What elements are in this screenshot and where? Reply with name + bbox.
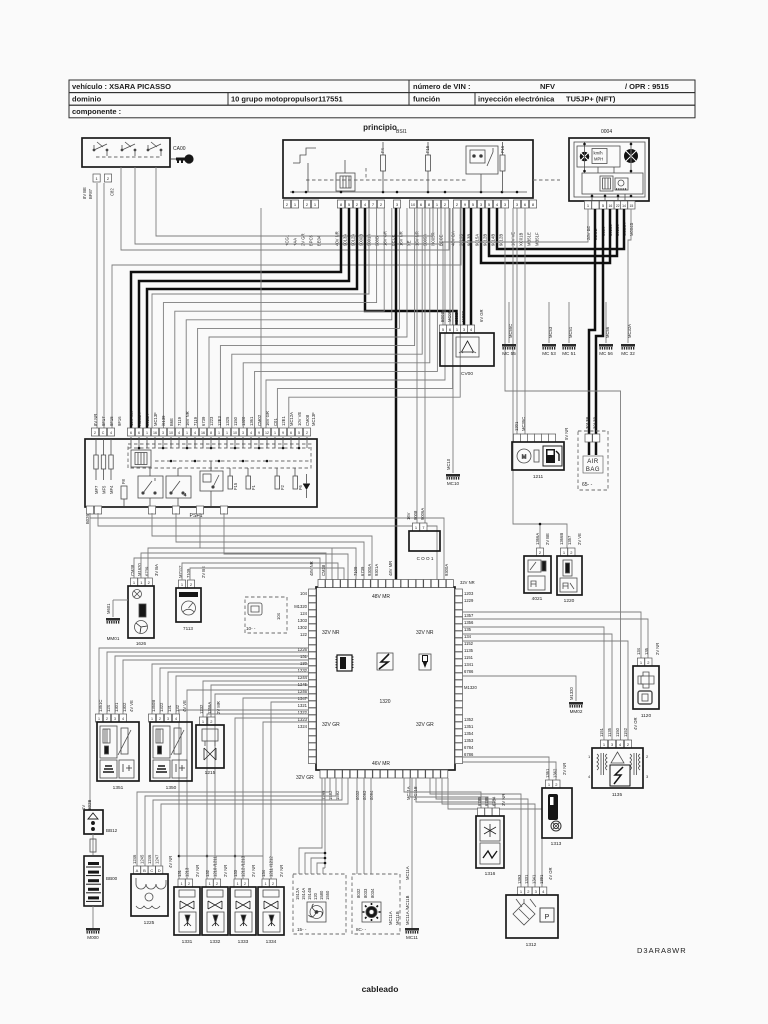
svg-text:1225: 1225	[144, 920, 155, 926]
svg-text:1151: 1151	[599, 727, 604, 737]
svg-text:NFV: NFV	[540, 82, 555, 91]
BSI1 junction dots	[292, 191, 295, 194]
wire ECU to 1626 b	[141, 553, 326, 580]
svg-text:5: 5	[298, 431, 300, 435]
BSI1 connector pin row	[283, 200, 536, 208]
fuse F15	[426, 155, 431, 171]
svg-text:4: 4	[175, 717, 177, 721]
1334 pin labels	[261, 856, 284, 877]
airbag pin labels	[585, 417, 598, 429]
svg-text:MC56: MC56	[605, 326, 610, 338]
svg-text:MC 51: MC 51	[562, 351, 576, 356]
instrument cluster 0004	[569, 138, 649, 201]
BSI1 internal switch box	[466, 146, 498, 174]
wire ECU to coil 1135 a	[462, 627, 604, 740]
ground MC11	[405, 928, 419, 940]
wire PSF1 to ECU 48V b	[98, 513, 437, 580]
1120 pin labels	[636, 643, 660, 655]
wire BSI to C001 pin2	[424, 208, 426, 523]
svg-text:CM38: CM38	[321, 564, 326, 576]
svg-text:3: 3	[167, 717, 169, 721]
header table	[69, 80, 695, 118]
wire ECU to 1225 d	[161, 778, 348, 866]
coolant temp sensor 1220	[557, 556, 582, 595]
1225 pin labels	[132, 854, 173, 868]
wire ECU to 1313 b	[462, 762, 556, 780]
svg-text:3: 3	[114, 717, 116, 721]
svg-text:1580: 1580	[319, 890, 324, 900]
wire cascade BSI to PSF1	[175, 208, 384, 428]
svg-text:8V NR: 8V NR	[93, 414, 98, 426]
svg-text:F15: F15	[233, 482, 238, 490]
svg-text:1514B: 1514B	[307, 888, 312, 900]
svg-text:MPH: MPH	[594, 157, 603, 162]
wire ECU to 1215 b	[211, 685, 308, 717]
wire ECU common injector a	[179, 710, 308, 879]
svg-text:1: 1	[226, 431, 228, 435]
wire ECU to 1316 b	[410, 778, 488, 808]
wire ECU to lambda 1120 a	[462, 612, 641, 658]
PSF1 relay 1	[138, 476, 163, 498]
svg-text:B: B	[143, 868, 146, 873]
1211 motor symbol	[517, 449, 531, 463]
wire MC00 thick to CV00	[470, 208, 473, 325]
0004 inner connector IC	[600, 176, 613, 191]
switch contact in CA00	[147, 142, 162, 156]
svg-text:1211 /1212: 1211 /1212	[269, 856, 274, 877]
AC compressor icon	[362, 902, 381, 922]
svg-text:48V NR: 48V NR	[309, 561, 314, 576]
1626 pin labels	[130, 563, 159, 576]
ECU injector icon	[419, 654, 431, 670]
relay 1215 pins	[199, 717, 215, 725]
svg-text:1312: 1312	[526, 942, 537, 948]
svg-text:XC03A: XC03A	[137, 413, 142, 426]
svg-text:9: 9	[282, 431, 284, 435]
wire PSF1 to ECU e	[200, 513, 356, 580]
svg-text:1151: 1151	[464, 655, 474, 660]
svg-text:1: 1	[151, 717, 153, 721]
svg-text:1351: 1351	[464, 724, 474, 729]
svg-text:32V GR: 32V GR	[322, 722, 340, 728]
PSF1 internal connector	[131, 450, 151, 467]
svg-text:4: 4	[250, 431, 252, 435]
svg-text:32V NR: 32V NR	[322, 630, 340, 636]
svg-text:32V NR: 32V NR	[460, 580, 475, 585]
svg-text:número de VIN :: número de VIN :	[413, 82, 471, 91]
svg-text:16: 16	[609, 204, 613, 208]
svg-text:6784: 6784	[464, 745, 474, 750]
svg-text:MC 53: MC 53	[542, 351, 556, 356]
svg-text:10V NR: 10V NR	[129, 411, 134, 426]
svg-text:C01: C01	[273, 418, 278, 426]
svg-text:D3ARA8WR: D3ARA8WR	[637, 946, 687, 955]
AC box labels	[356, 888, 375, 898]
wire C82 pin2 down to PSF1	[103, 183, 105, 428]
svg-text:BF87: BF87	[88, 188, 93, 199]
blower unit 1626 pins	[130, 578, 152, 586]
svg-text:8V BE: 8V BE	[82, 187, 87, 199]
svg-text:6V GR: 6V GR	[479, 309, 484, 322]
svg-text:1351: 1351	[113, 785, 124, 791]
wire BSI to ground MC10	[452, 208, 454, 473]
svg-text:F2: F2	[280, 484, 285, 490]
wire ECU to 1351 b	[107, 652, 308, 714]
svg-text:1: 1	[209, 882, 211, 886]
svg-text:7113: 7113	[183, 626, 193, 631]
svg-text:vehículo : XSARA PICASSO: vehículo : XSARA PICASSO	[72, 82, 171, 91]
svg-text:8: 8	[210, 431, 212, 435]
svg-text:132: 132	[205, 869, 210, 877]
svg-text:1320: 1320	[241, 416, 246, 426]
svg-text:1: 1	[181, 882, 183, 886]
svg-text:función: función	[413, 95, 440, 104]
svg-text:1514A: 1514A	[301, 888, 306, 900]
svg-text:12E1: 12E1	[281, 416, 286, 426]
ECU right pin labels	[464, 591, 477, 757]
svg-text:XC01B: XC01B	[519, 233, 524, 246]
PSF1 fuse F8	[121, 486, 127, 499]
ground MC10	[446, 474, 460, 486]
svg-text:3: 3	[162, 431, 164, 435]
svg-text:1361: 1361	[249, 416, 254, 426]
svg-text:1321: 1321	[298, 703, 308, 708]
PSF1 relay 2	[166, 476, 191, 498]
svg-text:6784: 6784	[492, 796, 497, 806]
svg-text:2V NR: 2V NR	[251, 865, 256, 877]
svg-text:BB00: BB00	[106, 876, 118, 881]
wire 9012A thick BSI to PSF1	[139, 208, 349, 428]
1331 pin labels	[177, 865, 200, 877]
svg-text:1391: 1391	[539, 874, 544, 884]
wire ECU to 1215 a	[203, 681, 308, 717]
svg-text:2: 2	[94, 431, 96, 435]
svg-text:3: 3	[242, 431, 244, 435]
svg-text:2V NR: 2V NR	[195, 865, 200, 877]
wire ECU to 1316 c	[416, 778, 495, 808]
airbag control unit dashed box	[578, 431, 608, 490]
svg-text:32V GR: 32V GR	[416, 722, 434, 728]
wire ECU to 1350 a	[152, 664, 308, 714]
PSF1 bottom pin row	[86, 506, 227, 514]
svg-text:1393: 1393	[517, 874, 522, 884]
svg-text:4: 4	[588, 774, 591, 779]
svg-text:1220: 1220	[564, 598, 575, 604]
svg-text:F15: F15	[425, 145, 430, 153]
svg-text:CM02: CM02	[257, 414, 262, 426]
svg-text:1352: 1352	[464, 717, 474, 722]
svg-text:9005: 9005	[454, 312, 459, 322]
svg-text:130: 130	[300, 661, 308, 666]
wire fan unit b	[305, 853, 325, 874]
svg-text:12E3: 12E3	[217, 416, 222, 426]
wire BB00 to ground	[92, 906, 94, 928]
ground MC55	[502, 344, 516, 356]
svg-text:4: 4	[178, 431, 180, 435]
svg-text:5V NR: 5V NR	[564, 428, 569, 440]
wire BSI to PSF1 +CG1	[112, 208, 461, 428]
svg-text:MC35C: MC35C	[521, 417, 526, 431]
coolant temp sensor 1220 pins	[560, 548, 575, 556]
wire ECU to 1313 a	[462, 757, 549, 780]
1220 pin labels	[559, 533, 582, 545]
svg-text:1211: 1211	[533, 474, 544, 480]
svg-text:10: 10	[233, 431, 237, 435]
svg-text:2V BE: 2V BE	[545, 533, 550, 545]
wire thick BSI-0004 b	[489, 208, 617, 256]
svg-text:MB51F: MB51F	[535, 232, 540, 246]
fuse below BB12	[92, 834, 94, 855]
fuse F16	[500, 155, 505, 171]
svg-text:1331: 1331	[524, 874, 529, 884]
wire cascade BSI to PSF1	[209, 208, 407, 428]
wire ECU to 1350 d	[176, 676, 308, 714]
1312 pin labels	[517, 867, 553, 884]
svg-text:120: 120	[313, 892, 318, 900]
buzzer CV00 pins	[439, 325, 474, 333]
svg-text:MB51E: MB51E	[527, 232, 532, 246]
wire BSI direct to PSF1	[260, 208, 262, 428]
1316 pin labels	[477, 794, 506, 806]
wire PSF1 to ECU c	[152, 513, 372, 580]
svg-text:TU5JP+ (NFT): TU5JP+ (NFT)	[566, 95, 616, 104]
wire cascade BSI to PSF1	[163, 208, 376, 428]
1135 pin labels	[599, 717, 638, 737]
svg-text:1: 1	[218, 431, 220, 435]
svg-text:1325: 1325	[225, 416, 230, 426]
svg-text:/ OPR : 9515: / OPR : 9515	[625, 82, 669, 91]
svg-text:1215: 1215	[205, 770, 216, 776]
svg-text:B02B: B02B	[87, 800, 92, 810]
svg-text:1362: 1362	[553, 768, 558, 778]
svg-text:B0038: B0038	[440, 309, 445, 322]
ignition coil 1135 pins	[600, 740, 631, 748]
svg-text:MC11A: MC11A	[388, 911, 393, 925]
svg-text:2: 2	[188, 882, 190, 886]
svg-text:A: A	[136, 868, 139, 873]
wire ECU to injector 1333	[243, 698, 308, 879]
svg-text:1203: 1203	[464, 591, 474, 596]
svg-text:MC13F: MC13F	[311, 412, 316, 426]
svg-text:MC53: MC53	[548, 326, 553, 338]
wire ECU to injector 1334	[271, 702, 308, 879]
wire 0004 to ground MC32	[628, 209, 631, 343]
svg-text:MC51: MC51	[568, 326, 573, 338]
svg-text:MC 56: MC 56	[599, 351, 613, 356]
ignition coil 1135	[592, 748, 643, 788]
svg-text:B6E: B6E	[169, 418, 174, 426]
AC unit dashed box	[352, 874, 400, 934]
ECU top pin labels	[309, 561, 393, 576]
wire cascade BSI to PSF1	[243, 208, 430, 428]
svg-text:1: 1	[274, 431, 276, 435]
BSI1 body computer box	[283, 140, 533, 198]
svg-text:BAG: BAG	[586, 467, 600, 473]
svg-text:2: 2	[159, 717, 161, 721]
wire BSI to C001 pin1	[416, 208, 418, 523]
svg-text:16: 16	[153, 431, 157, 435]
svg-text:134: 134	[464, 634, 472, 639]
gauge module 7113 pins	[178, 580, 194, 588]
svg-text:135: 135	[464, 627, 472, 632]
svg-text:1320: 1320	[379, 699, 390, 705]
connector C001 pins	[412, 523, 427, 531]
PSF1 top pin row	[91, 428, 310, 436]
wire cascade BSI to PSF1	[255, 208, 438, 428]
svg-text:2V NR: 2V NR	[655, 643, 660, 655]
0004 top gauge sub-box	[577, 146, 620, 167]
wire ECU to 1351 d	[123, 660, 308, 714]
4021 pin labels	[535, 533, 550, 545]
svg-text:9300A: 9300A	[367, 564, 372, 576]
svg-text:1303: 1303	[298, 618, 308, 623]
1211 fuel icon	[543, 446, 562, 466]
svg-text:1229: 1229	[464, 598, 474, 603]
MAP sensor 4021 pin	[536, 548, 543, 556]
svg-text:C82: C82	[110, 188, 115, 196]
svg-text:MC11A: MC11A	[405, 866, 410, 880]
wire 9013A2 thick BSI to PSF1	[147, 208, 357, 428]
wire ECU to 1312 a	[430, 778, 521, 887]
wire ECU to AC unit a	[356, 778, 358, 874]
0004 pin labels	[586, 223, 634, 240]
ground MM01	[106, 618, 120, 624]
svg-text:MF5: MF5	[102, 485, 107, 494]
svg-text:MC10: MC10	[447, 481, 460, 486]
wire PSF1 to ECU f	[224, 513, 348, 580]
svg-text:135: 135	[644, 647, 649, 655]
svg-text:1351C: 1351C	[98, 700, 103, 712]
svg-text:1582: 1582	[328, 790, 333, 800]
svg-text:MC11A /MC11B: MC11A /MC11B	[405, 895, 410, 925]
svg-text:MC32A: MC32A	[627, 324, 632, 338]
svg-text:1302: 1302	[122, 702, 127, 712]
svg-text:2V NR: 2V NR	[279, 865, 284, 877]
svg-text:1120: 1120	[641, 713, 652, 719]
injector 1333 pins	[234, 879, 249, 887]
svg-text:9012B: 9012B	[499, 234, 504, 246]
wire thick 0004 to airbag 30136	[596, 209, 603, 455]
PSF1 internal dots	[138, 447, 141, 450]
svg-text:AIR: AIR	[587, 459, 599, 465]
svg-text:MF4: MF4	[109, 485, 114, 494]
svg-text:1223: 1223	[209, 416, 214, 426]
svg-text:cableado: cableado	[362, 984, 399, 994]
svg-text:F1: F1	[251, 484, 256, 490]
svg-text:1322: 1322	[159, 702, 164, 712]
svg-text:16V: 16V	[406, 512, 411, 520]
svg-text:3013B: 3013B	[585, 417, 590, 429]
PSF1 fuse F1	[246, 476, 251, 489]
svg-text:2V NR: 2V NR	[223, 865, 228, 877]
svg-text:1152: 1152	[464, 641, 474, 646]
fuel pump gauge 1211 box	[512, 442, 564, 470]
svg-text:6739: 6739	[360, 566, 365, 576]
svg-text:133: 133	[233, 869, 238, 877]
connector C001 box	[409, 531, 440, 551]
svg-text:8033: 8033	[363, 888, 368, 898]
PSF1 engine fuse box	[85, 439, 317, 507]
diagnostic socket 1312 pins	[517, 887, 546, 895]
wire ECU common injector c	[235, 718, 308, 879]
ground MC56	[599, 344, 613, 356]
svg-text:2: 2	[306, 431, 308, 435]
svg-text:4V OR: 4V OR	[633, 717, 638, 730]
1333 pin labels	[233, 855, 256, 877]
ECU left pin labels	[294, 591, 307, 729]
svg-text:1135: 1135	[612, 792, 623, 798]
svg-text:4021: 4021	[532, 596, 543, 602]
svg-text:7119: 7119	[177, 416, 182, 426]
svg-text:M601: M601	[106, 603, 111, 614]
wire thick BSI to ECU 1320	[395, 208, 398, 580]
svg-text:10 grupo motopropulsor117551: 10 grupo motopropulsor117551	[231, 95, 343, 104]
svg-text:P: P	[545, 914, 550, 921]
svg-text:134: 134	[636, 647, 641, 655]
1332 pin labels	[205, 856, 228, 877]
wire stub ground MC51	[568, 302, 570, 343]
wire ECU to 1626 c	[148, 548, 332, 580]
svg-text:MC11B: MC11B	[395, 911, 400, 925]
PSF1 top pin labels	[93, 411, 316, 426]
ECU top pin row	[318, 580, 453, 588]
svg-text:9F17: 9F17	[101, 416, 106, 426]
svg-text:104: 104	[276, 612, 281, 620]
wire ECU to 7113 b	[190, 568, 344, 580]
svg-text:componente :: componente :	[72, 107, 121, 116]
svg-text:1150: 1150	[233, 416, 238, 426]
wire ECU to lambda 1120 b	[462, 619, 648, 658]
svg-text:MC10: MC10	[446, 458, 451, 470]
ECU left pin column	[309, 589, 317, 764]
svg-text:6: 6	[130, 431, 132, 435]
svg-text:1212 /1213: 1212 /1213	[241, 855, 246, 877]
fuse F4	[381, 155, 386, 171]
svg-text:12: 12	[265, 431, 269, 435]
svg-text:7109: 7109	[353, 566, 358, 576]
svg-text:1213: 1213	[185, 867, 190, 877]
injector common bus	[179, 855, 263, 857]
wire ECU common injector d	[263, 722, 308, 879]
engine fan relay 1351 pins	[95, 714, 126, 722]
wire cascade BSI to PSF1	[232, 208, 422, 428]
svg-text:F4: F4	[380, 147, 385, 153]
engine ECU 1320 box	[316, 587, 455, 770]
svg-text:M000: M000	[87, 935, 99, 940]
connector C82 pins	[93, 174, 112, 182]
wire 0004 to CV00 pin5	[443, 209, 588, 325]
wire ECU to 1626 a	[134, 558, 320, 580]
wire MM01 branch	[113, 599, 128, 601]
svg-text:MC13F: MC13F	[153, 412, 158, 426]
svg-text:4V VE: 4V VE	[129, 700, 134, 712]
engine fan relay 1350	[150, 722, 192, 781]
buzzer CV00 inner bell	[456, 337, 479, 357]
wire ECU to 1225 c	[153, 778, 342, 866]
wire ECU to ground MC11	[411, 778, 413, 928]
svg-text:1135: 1135	[607, 727, 612, 737]
wire stub ground MC53	[548, 302, 550, 343]
svg-text:1356: 1356	[464, 620, 474, 625]
wire ECU to injector 1331	[187, 690, 308, 879]
wire ECU common injector b	[207, 714, 308, 879]
1351 pin labels	[98, 700, 134, 712]
buzzer CV00 box	[440, 333, 494, 366]
CA00 dashed actuator link	[96, 156, 160, 158]
PSF1 dashed bus	[128, 447, 310, 449]
diagnostic socket 1312	[506, 895, 558, 938]
svg-text:8032: 8032	[356, 888, 361, 898]
